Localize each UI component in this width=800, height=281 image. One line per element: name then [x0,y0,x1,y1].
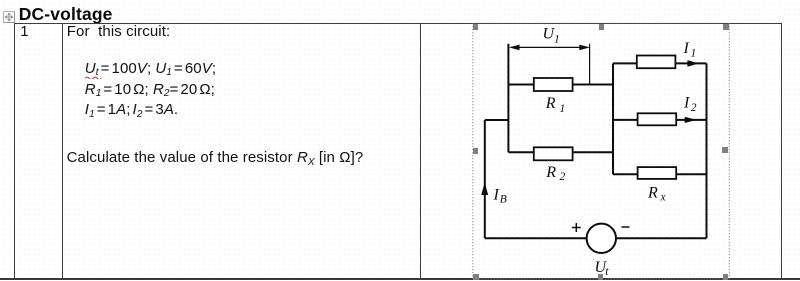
resistor Rx [638,167,677,179]
svg-text:x: x [660,192,667,204]
plus sign [572,223,630,232]
wire: R1 branch [508,84,613,86]
svg-text:1: 1 [691,47,697,59]
selection marquee [471,22,731,280]
table borders [14,23,782,24]
wire: bottom left [485,237,587,239]
U1 dimension arrow [511,44,590,84]
move handle icon [3,11,15,23]
current arrow I1 [687,60,698,67]
current arrow I2 [685,117,697,123]
wire: I1 branch [613,62,707,64]
wire: mid-right rail [612,63,614,174]
resistor R1 [534,78,573,91]
resistor R2 [534,147,573,160]
svg-text:I: I [493,186,500,203]
handles [473,24,479,30]
resistor I2 branch [638,113,677,125]
wire: mid-left vertical [507,44,509,153]
current arrow IB [481,183,488,196]
wire: bottom right [616,237,707,239]
svg-text:R: R [545,95,556,112]
svg-text:2: 2 [560,171,566,183]
wire: Rx branch [613,173,707,175]
voltage source Ut [587,224,616,253]
wire: right rail [706,63,708,238]
circuit schematic [460,20,790,281]
svg-text:1: 1 [554,33,560,45]
wire: junction horizontal [485,119,509,121]
svg-text:B: B [500,193,507,205]
red squiggle under Ut [85,75,102,80]
wire: I2 branch [613,119,707,121]
svg-text:R: R [545,164,556,181]
wire: left rail [484,120,486,238]
svg-text:t: t [605,266,609,278]
svg-text:I: I [683,95,690,112]
heading [19,4,113,25]
svg-text:I: I [683,40,690,57]
svg-text:2: 2 [691,102,697,114]
wire: R2 branch [508,151,613,153]
minus sign [622,226,630,228]
text cell [67,23,170,40]
svg-text:1: 1 [560,103,566,115]
resistor I1 branch [637,56,676,69]
svg-text:R: R [647,185,658,202]
cell 1 number [20,23,28,40]
